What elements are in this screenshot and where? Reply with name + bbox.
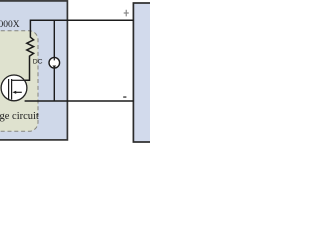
MOSFET channel bar [11,79,13,100]
MOSFET Q1 circle [1,75,27,101]
MOSFET gate bar [8,79,10,100]
minus terminal label [123,96,126,97]
svg-text:DC: DC [33,58,43,65]
MOSFET top lead to gate wire [12,79,25,81]
DC source internal arrow [53,57,55,60]
top wire with resistor R branch [25,20,134,80]
MOSFET arrowhead [12,91,16,94]
discharge circuit dashed box [0,31,38,132]
DC source wire [53,20,55,101]
left block (1000X converter box, cut off at left) [0,1,67,140]
MOSFET arrow lead [16,91,22,93]
svg-text:ge circuit: ge circuit [0,111,39,122]
bottom wire [25,100,134,102]
right block (battery, cut off at right) [133,3,158,142]
plus terminal label [124,10,129,17]
svg-text:000X: 000X [0,20,20,30]
DC source circle [49,57,60,68]
